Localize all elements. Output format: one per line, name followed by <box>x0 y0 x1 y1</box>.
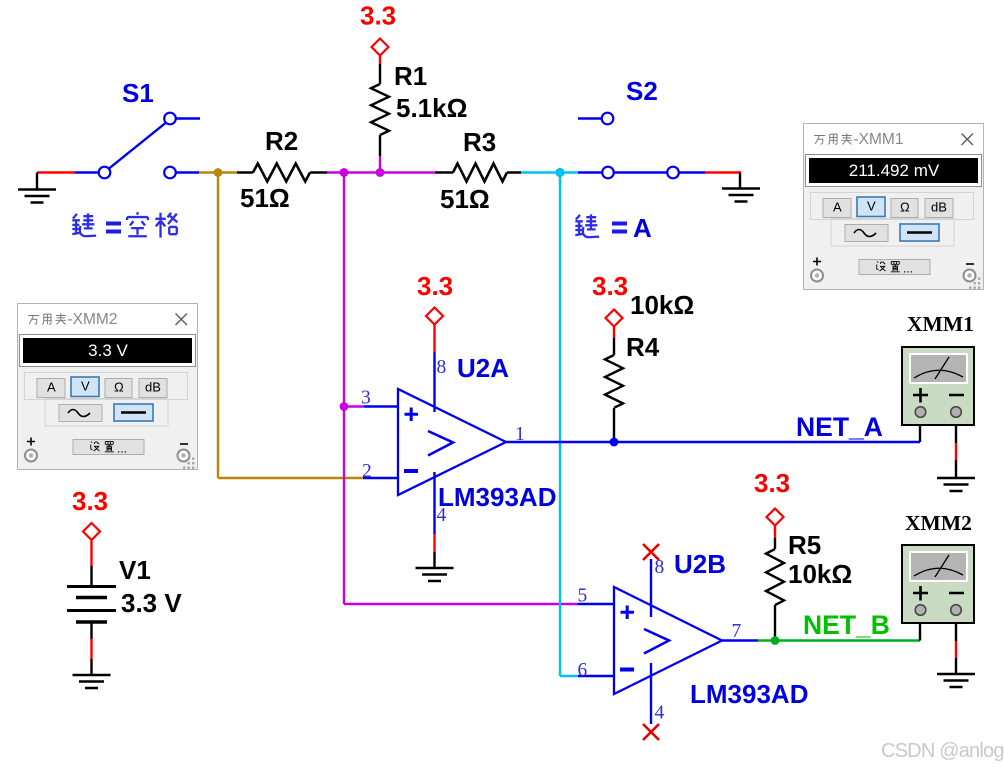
svg-text:-XMM1: -XMM1 <box>854 131 904 148</box>
svg-text:XMM1: XMM1 <box>907 312 974 336</box>
svg-text:U2A: U2A <box>457 353 509 383</box>
svg-text:R1: R1 <box>394 61 427 91</box>
svg-text:Ω: Ω <box>900 200 910 215</box>
svg-text:5.1kΩ: 5.1kΩ <box>396 93 467 123</box>
svg-text:51Ω: 51Ω <box>440 184 490 214</box>
svg-text:5: 5 <box>578 586 588 607</box>
svg-text:51Ω: 51Ω <box>240 183 290 213</box>
svg-text:A: A <box>833 200 842 215</box>
svg-text:-XMM2: -XMM2 <box>68 311 118 328</box>
svg-text:S2: S2 <box>626 76 658 106</box>
svg-text:NET_B: NET_B <box>803 610 890 640</box>
svg-text:A: A <box>47 380 56 395</box>
svg-text:LM393AD: LM393AD <box>438 482 556 512</box>
svg-text:R2: R2 <box>265 126 298 156</box>
svg-text:V: V <box>867 199 876 214</box>
svg-text:3.3: 3.3 <box>360 1 396 31</box>
svg-text:3: 3 <box>361 388 371 409</box>
svg-text:8: 8 <box>655 557 665 578</box>
svg-text:3.3: 3.3 <box>592 271 628 301</box>
svg-text:4: 4 <box>437 505 447 526</box>
svg-text:3.3 V: 3.3 V <box>88 341 128 360</box>
svg-text:3.3 V: 3.3 V <box>121 588 182 618</box>
svg-text:LM393AD: LM393AD <box>690 679 808 709</box>
svg-text:10kΩ: 10kΩ <box>630 290 694 320</box>
svg-text:XMM2: XMM2 <box>905 511 972 535</box>
svg-text:A: A <box>633 213 652 243</box>
svg-text:6: 6 <box>578 660 588 681</box>
svg-text:3.3: 3.3 <box>754 468 790 498</box>
svg-text:10kΩ: 10kΩ <box>788 559 852 589</box>
svg-text:R5: R5 <box>788 530 821 560</box>
svg-text:S1: S1 <box>122 78 154 108</box>
svg-text:1: 1 <box>515 424 525 445</box>
svg-text:R3: R3 <box>463 127 496 157</box>
svg-text:8: 8 <box>437 357 447 378</box>
svg-text:dB: dB <box>931 200 947 215</box>
svg-text:4: 4 <box>655 703 665 724</box>
svg-text:dB: dB <box>145 380 161 395</box>
svg-text:3.3: 3.3 <box>417 271 453 301</box>
svg-text:V1: V1 <box>119 555 151 585</box>
svg-text:R4: R4 <box>626 332 660 362</box>
svg-text:V: V <box>81 379 90 394</box>
svg-text:211.492 mV: 211.492 mV <box>849 161 940 180</box>
svg-text:Ω: Ω <box>114 380 124 395</box>
svg-text:3.3: 3.3 <box>72 486 108 516</box>
svg-text:U2B: U2B <box>674 549 726 579</box>
svg-text:7: 7 <box>732 621 742 642</box>
svg-text:2: 2 <box>362 461 372 482</box>
svg-text:NET_A: NET_A <box>796 412 883 442</box>
svg-text:CSDN @anlog: CSDN @anlog <box>881 740 1004 762</box>
